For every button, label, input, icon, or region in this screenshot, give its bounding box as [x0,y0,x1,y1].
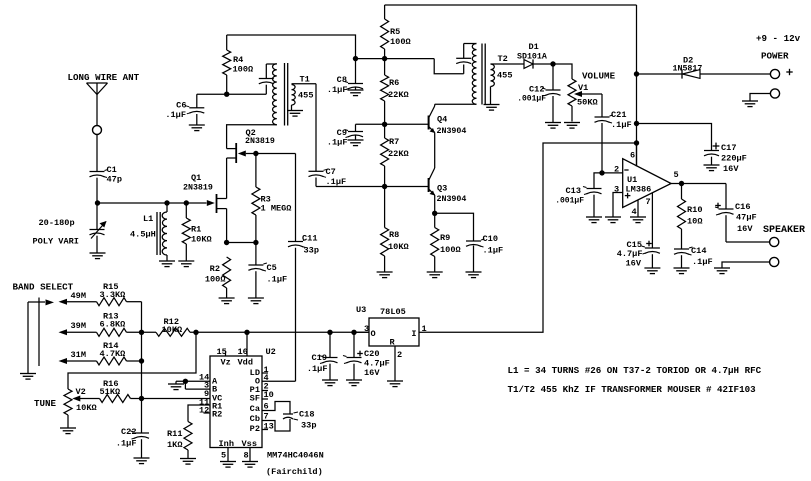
node A main tank node [95,200,100,205]
svg-text:100Ω: 100Ω [205,275,226,285]
switch contact 39M [59,329,68,335]
resistor R14 [97,357,127,365]
wire rail to V2 top [68,332,196,389]
transformer T1 primary [273,64,277,125]
ground C6 [189,124,205,126]
svg-text:LM386: LM386 [626,185,652,195]
transformer T2 primary [472,44,476,105]
wire Q2 drain to T1 primary [227,125,277,149]
switch contact 49M [59,299,68,305]
svg-text:.001µF: .001µF [517,95,546,104]
ground U3 R pin [387,380,403,382]
svg-text:VOLUME: VOLUME [582,71,616,82]
capacitor C15 [646,243,652,245]
svg-text:10KΩ: 10KΩ [191,235,212,245]
node junction Q3 emitter [432,211,437,216]
node junction rail/Vdd [244,330,249,335]
node junction battery/U3-input riser [634,140,639,145]
svg-text:MM74HC4046N: MM74HC4046N [267,451,324,461]
ground speaker [714,267,730,269]
ground T1 secondary [287,110,303,112]
ground C15 [644,267,660,269]
pin 16 Vdd wire [246,332,248,356]
wire Q1 drain to Q2 source [226,158,228,199]
svg-text:.1µF: .1µF [327,138,348,148]
svg-text:D1: D1 [529,42,539,52]
pin 1 LD stub [262,372,268,374]
ground C10 [466,271,482,273]
svg-text:2N3904: 2N3904 [437,127,467,136]
wire pin5 output row [671,183,726,185]
svg-text:1N5817: 1N5817 [673,65,703,74]
svg-text:R10: R10 [687,205,702,215]
svg-text:10Ω: 10Ω [687,217,702,227]
svg-text:R4: R4 [233,55,243,65]
ground C22 [134,457,150,459]
capacitor C19 [329,332,331,357]
svg-text:U1: U1 [627,175,637,185]
svg-text:LONG WIRE ANT: LONG WIRE ANT [68,72,140,83]
ground R2 [219,297,235,299]
node junction D1 out [550,61,555,66]
resistor R4 [226,35,228,50]
resistor R16 [100,395,131,403]
ground R9 [427,271,443,273]
svg-text:Q3: Q3 [437,184,447,194]
svg-text:Vz: Vz [221,358,231,368]
diode D2 1N5817 [637,73,683,75]
node junction A/B tie [183,379,188,384]
svg-text:6.8KΩ: 6.8KΩ [100,320,126,330]
node junction rail/V2 branch [193,330,198,335]
svg-text:16V: 16V [737,224,753,234]
svg-text:C17: C17 [721,143,736,153]
ground C19 [322,379,338,381]
terminal speaker + [770,237,779,246]
capacitor C9 [355,124,357,131]
svg-text:10KΩ: 10KΩ [76,403,97,413]
svg-text:(Fairchild): (Fairchild) [266,467,323,477]
svg-text:51KΩ: 51KΩ [100,387,121,397]
svg-text:49M: 49M [71,291,86,301]
svg-text:SF: SF [250,394,260,404]
svg-text:R9: R9 [440,233,450,243]
resistor R8 [384,187,386,228]
svg-text:.1µF: .1µF [116,439,137,449]
wire battery to C17 [637,124,712,151]
wire R15 to band bus [127,301,142,303]
capacitor C16 [725,184,727,210]
svg-text:2: 2 [397,350,402,360]
wire tune row to U2 VC [131,398,211,400]
diode D1 SD101A [524,60,533,69]
resistor R2 [223,257,231,288]
svg-text:4: 4 [632,207,637,217]
resistor R9 [434,213,436,227]
svg-text:2N3819: 2N3819 [245,137,275,146]
transistor Q3 [428,178,430,192]
svg-text:T1: T1 [300,75,310,85]
op-amp U1 LM386 [623,159,671,208]
ground variable capacitor [90,252,106,254]
node junction R7/R8/Q3 [382,184,387,189]
svg-text:T2: T2 [498,54,508,64]
svg-text:C10: C10 [483,234,498,244]
IC U2 MM74HC4046N [210,356,262,448]
svg-text:4.5µH: 4.5µH [130,230,156,240]
switch contact 31M [59,358,68,364]
resistor R11 [184,422,192,451]
capacitor C17 [713,145,720,147]
svg-text:R5: R5 [390,27,400,37]
wire rail y=58.6 with jog to T2 [356,58,435,60]
wire Q3 emitter row to C10 [435,213,474,241]
pin 7 Cb wire to C18 [262,419,290,431]
wire rail R4-top [227,35,356,59]
transistor Q1 2N3819 [207,200,215,206]
wire D1 node to V1 [553,64,572,79]
svg-text:16: 16 [238,347,248,357]
wire source node row [227,242,256,244]
inductor L1 [166,203,168,212]
svg-text:50KΩ: 50KΩ [577,98,598,108]
power vertical from D2 node [636,74,638,166]
svg-text:78L05: 78L05 [380,307,406,317]
svg-text:TUNE: TUNE [34,398,57,409]
svg-text:100Ω: 100Ω [390,37,411,47]
svg-text:U2: U2 [266,347,276,357]
wire antenna to C1 [96,135,98,172]
capacitor C5 [255,243,257,266]
svg-text:16V: 16V [723,164,739,174]
svg-text:.1µF: .1µF [307,364,328,374]
ground pins A,B [168,383,184,385]
svg-text:C8: C8 [337,75,347,85]
svg-text:Ca: Ca [250,404,260,414]
wire pin6 to battery [636,143,638,166]
capacitor C8 [355,59,357,84]
svg-text:4.7µF: 4.7µF [364,359,390,369]
wire pin4 to ground [637,200,639,217]
svg-text:.1µF: .1µF [611,120,632,130]
svg-text:Vss: Vss [242,439,257,449]
svg-text:12: 12 [199,406,209,416]
svg-text:47p: 47p [107,175,122,185]
svg-text:C7: C7 [326,167,336,177]
terminal antenna connector [93,126,102,135]
svg-text:SD101A: SD101A [517,53,547,62]
svg-text:Inh: Inh [219,439,234,449]
ground C13 [586,216,602,218]
capacitor C10 [466,240,481,242]
svg-text:R11: R11 [167,429,182,439]
ground T2 secondary [484,104,500,106]
ground C20 [346,379,362,381]
svg-text:455: 455 [497,71,512,81]
ground power [742,100,758,102]
wire pin2 [602,172,623,174]
ground L1 [159,260,175,262]
svg-text:6: 6 [630,151,635,161]
svg-text:V1: V1 [578,83,588,93]
svg-text:L1 = 34 TURNS #26 ON T37-2 TOR: L1 = 34 TURNS #26 ON T37-2 TORIOD OR 4.7… [508,365,762,376]
svg-text:Q1: Q1 [191,173,201,183]
svg-text:.1µF: .1µF [165,110,186,120]
ground pin8 [242,461,258,463]
wire to speaker + [726,241,770,243]
svg-text:V2: V2 [76,387,86,397]
capacitor C12 [552,64,554,90]
pin 6 Ca wire to C18 [262,402,290,415]
terminal power + [770,69,779,78]
svg-text:2N3819: 2N3819 [183,184,213,193]
svg-text:POWER: POWER [761,51,789,62]
wire Q4 collector to T2 primary [435,103,477,105]
svg-text:16V: 16V [364,368,380,378]
pin 8 Vss wire [249,448,251,462]
svg-text:22KΩ: 22KΩ [388,90,409,100]
terminal speaker - [770,257,779,266]
pin 11 R1 wire to R11 [188,405,210,422]
svg-text:20-180p: 20-180p [39,218,75,228]
node junction pin2/C21/C13 [599,170,604,175]
node junction rail/C20 [351,330,356,335]
capacitor C11 [288,241,303,243]
wire Q3 base row / C7 bottom [316,186,429,188]
node junction rail/C19 [327,330,332,335]
pin 13 P2 stub [262,429,268,431]
svg-text:22KΩ: 22KΩ [388,149,409,159]
svg-text:47µF: 47µF [736,213,757,223]
wire power - to ground [750,94,770,101]
node junction band bus/R14 [139,358,144,363]
svg-text:5: 5 [674,170,679,180]
ground band select [20,373,36,375]
resistor R13 [97,328,127,336]
ground C8 [348,89,364,91]
wire tune row [80,398,100,400]
svg-text:39M: 39M [71,321,86,331]
ground pin4 [630,216,646,218]
pin 12 R2 stub [204,412,211,414]
svg-text:R1: R1 [191,225,201,235]
svg-text:R6: R6 [389,78,399,88]
svg-text:R2: R2 [210,264,220,274]
wire pin7 to C15 [651,193,653,248]
node junction pin5/R10 [679,181,684,186]
svg-text:.1µF: .1µF [326,177,347,187]
wire pin3 to ground [613,193,623,217]
svg-text:C1: C1 [107,165,117,175]
svg-text:.001µF: .001µF [555,197,584,206]
resistor R6 [384,59,386,75]
svg-text:100Ω: 100Ω [233,65,254,75]
pin 9 VC stub [209,398,211,400]
capacitor C18 [283,413,293,415]
pin R wire to ground [394,346,396,381]
svg-text:33p: 33p [301,421,316,431]
pin 10 SF stub [262,398,268,400]
svg-text:Q4: Q4 [437,115,447,125]
ground pin3 [605,216,621,218]
ground R1 [178,260,194,262]
svg-text:C20: C20 [364,349,379,359]
svg-text:C6: C6 [176,101,186,111]
transistor Q4 [428,116,430,130]
node junction R5/R6 [382,56,387,61]
wire +5 rail [190,331,369,333]
svg-text:POLY VARI: POLY VARI [33,237,79,247]
svg-text:C9: C9 [337,128,347,138]
svg-text:4.7KΩ: 4.7KΩ [100,349,126,359]
wire speaker - to ground [722,262,770,268]
ground R11 [180,458,196,460]
svg-text:C12: C12 [529,85,544,95]
svg-text:C18: C18 [299,410,314,420]
wire Q4 base row [356,123,429,125]
svg-text:31M: 31M [71,350,86,360]
resistor R1 [185,203,187,218]
capacitor C14 [674,248,689,250]
svg-text:3.3KΩ: 3.3KΩ [100,290,126,300]
svg-text:C16: C16 [735,202,750,212]
pin O wire [354,331,369,333]
IC U3 78L05 regulator [369,318,419,346]
wire Q1 source down [226,209,228,243]
svg-text:4.7µF: 4.7µF [617,249,643,259]
transformer T2 core [481,44,483,105]
capacitor C21 [601,94,603,117]
svg-text:+9 - 12v: +9 - 12v [756,33,801,44]
svg-text:T1/T2 455 KhZ IF TRANSFORMER M: T1/T2 455 KhZ IF TRANSFORMER MOUSER # 42… [508,384,757,395]
svg-text:33p: 33p [304,246,319,256]
pin 15 stub [225,351,227,356]
svg-text:I: I [411,329,416,339]
resistor R3 1MEG [255,154,257,188]
wire band bus vertical [141,302,143,399]
capacitor T2 tuning cap [463,44,465,59]
node junction Q1 source/R2 [224,240,229,245]
svg-text:455: 455 [298,91,313,101]
ground C9 [348,139,364,141]
capacitor C1 [90,171,105,173]
resistor R15 [97,298,127,306]
node junction tune row/C22 [139,396,144,401]
svg-text:1KΩ: 1KΩ [167,440,182,450]
ground C14 [674,267,690,269]
svg-text:SPEAKER: SPEAKER [763,225,805,236]
resistor R5 [384,5,386,19]
node junction L1 top [164,200,169,205]
resistor R7 [384,124,386,138]
capacitor C13 [594,173,602,189]
node junction R1 top [184,200,189,205]
svg-text:220µF: 220µF [721,154,747,164]
ground V1 [564,122,580,124]
node junction battery/C17 [634,121,639,126]
terminal power - [770,89,779,98]
node junction Q2 gate/R3 [253,151,258,156]
capacitor T1 tuning cap [265,64,267,79]
svg-text:10KΩ: 10KΩ [388,242,409,252]
svg-text:100Ω: 100Ω [440,245,461,255]
svg-text:C22: C22 [121,427,136,437]
svg-text:.1µF: .1µF [692,257,713,267]
pin 14 A wire to ground [176,380,210,382]
wire T2 secondary to D1 [493,63,524,65]
capacitor C7 [315,84,317,172]
resistor R10 [681,184,683,200]
svg-text:R2: R2 [212,410,222,420]
svg-text:O: O [371,329,376,339]
pin 2 P1 stub [262,390,268,392]
svg-text:5: 5 [221,451,226,461]
svg-text:.1µF: .1µF [483,246,504,256]
node junction R6/R7/Q4 [382,122,387,127]
svg-text:Vdd: Vdd [238,358,253,368]
wire Q4 emitter to Q3 collector [434,133,436,169]
capacitor C6 [196,94,198,108]
capacitor C20 [353,332,355,357]
svg-text:U3: U3 [356,305,366,315]
svg-text:C19: C19 [312,353,327,363]
variable capacitor 20-180p POLY VARI [96,203,98,230]
svg-text:.1µF: .1µF [327,85,348,95]
wire C11 to U2 pin4 [262,380,296,382]
ground C12 [545,122,561,124]
svg-text:10KΩ: 10KΩ [162,325,183,335]
svg-text:7: 7 [646,197,651,207]
wire Q2 gate to C11 [295,154,297,242]
svg-text:C5: C5 [267,263,277,273]
svg-text:C21: C21 [611,110,626,120]
node junction band bus/R13 [139,330,144,335]
capacitor C22 [141,399,143,434]
pin 3 B wire [185,388,210,390]
potentiometer V1 volume [568,79,576,106]
ground V2 [60,427,76,429]
node junction R4 bottom [224,92,229,97]
pin I wire [419,331,423,333]
svg-text:L1: L1 [143,214,153,224]
ground R8 [377,271,393,273]
transformer T1 secondary [292,85,296,106]
svg-text:C13: C13 [566,186,581,196]
svg-text:C14: C14 [691,246,706,256]
svg-text:P2: P2 [250,424,260,434]
node junction R3/C5 [253,240,258,245]
wire to 78L05 input [423,143,637,332]
svg-text:R8: R8 [389,230,399,240]
node junction D2 anode [634,71,639,76]
potentiometer V2 tune [64,389,72,415]
resistor R12 [156,328,190,336]
svg-text:2N3904: 2N3904 [437,195,467,204]
svg-text:R7: R7 [389,137,399,147]
node junction C8/railB [353,56,358,61]
transistor Q2 2N3819 [235,143,237,163]
svg-text:C11: C11 [302,234,317,244]
wire node A to Q1 gate [98,202,207,204]
wire T1 jog row [197,93,266,95]
svg-text:8: 8 [244,451,249,461]
transformer T1 core [284,63,286,126]
transformer T2 secondary [491,64,495,87]
wire top rail from R5 to D2 node [385,4,637,6]
ground C5 [248,297,264,299]
svg-text:.1µF: .1µF [267,275,288,285]
pin 5 Inh wire [227,448,229,462]
